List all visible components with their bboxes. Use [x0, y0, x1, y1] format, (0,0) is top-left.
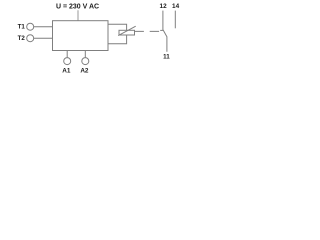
- contact 12 NC seat hook: [160, 29, 163, 31]
- contact 14 line: [174, 11, 176, 29]
- svg-text:U = 230 V AC: U = 230 V AC: [56, 3, 99, 10]
- relay coil K1 (rect with slash): [119, 30, 135, 35]
- contact 12 line: [162, 11, 164, 31]
- svg-text:12: 12: [160, 3, 168, 10]
- svg-text:T1: T1: [18, 24, 26, 31]
- wire T2 to box: [34, 37, 53, 39]
- wire T1 to box: [34, 26, 53, 28]
- device box U1: [53, 21, 109, 51]
- svg-text:11: 11: [163, 54, 170, 61]
- svg-text:A2: A2: [80, 68, 89, 75]
- svg-text:A1: A1: [62, 68, 71, 75]
- svg-text:T2: T2: [18, 35, 26, 42]
- contact arm (movable, from 11): [163, 30, 167, 52]
- terminal T2 circle: [27, 35, 34, 42]
- coil slash: [118, 26, 136, 35]
- terminal T1 circle: [27, 23, 34, 30]
- wire coil bottom to box: [108, 35, 127, 44]
- wire supply tick into box: [77, 10, 79, 20]
- terminal A2 circle: [82, 58, 89, 65]
- terminal A1 circle: [64, 58, 71, 65]
- wire A2 stub: [84, 51, 86, 58]
- wire A1 stub: [66, 51, 68, 58]
- wire box to coil top: [108, 24, 127, 30]
- mechanical link (dashed) coil to contact: [135, 30, 162, 32]
- svg-text:14: 14: [172, 3, 180, 10]
